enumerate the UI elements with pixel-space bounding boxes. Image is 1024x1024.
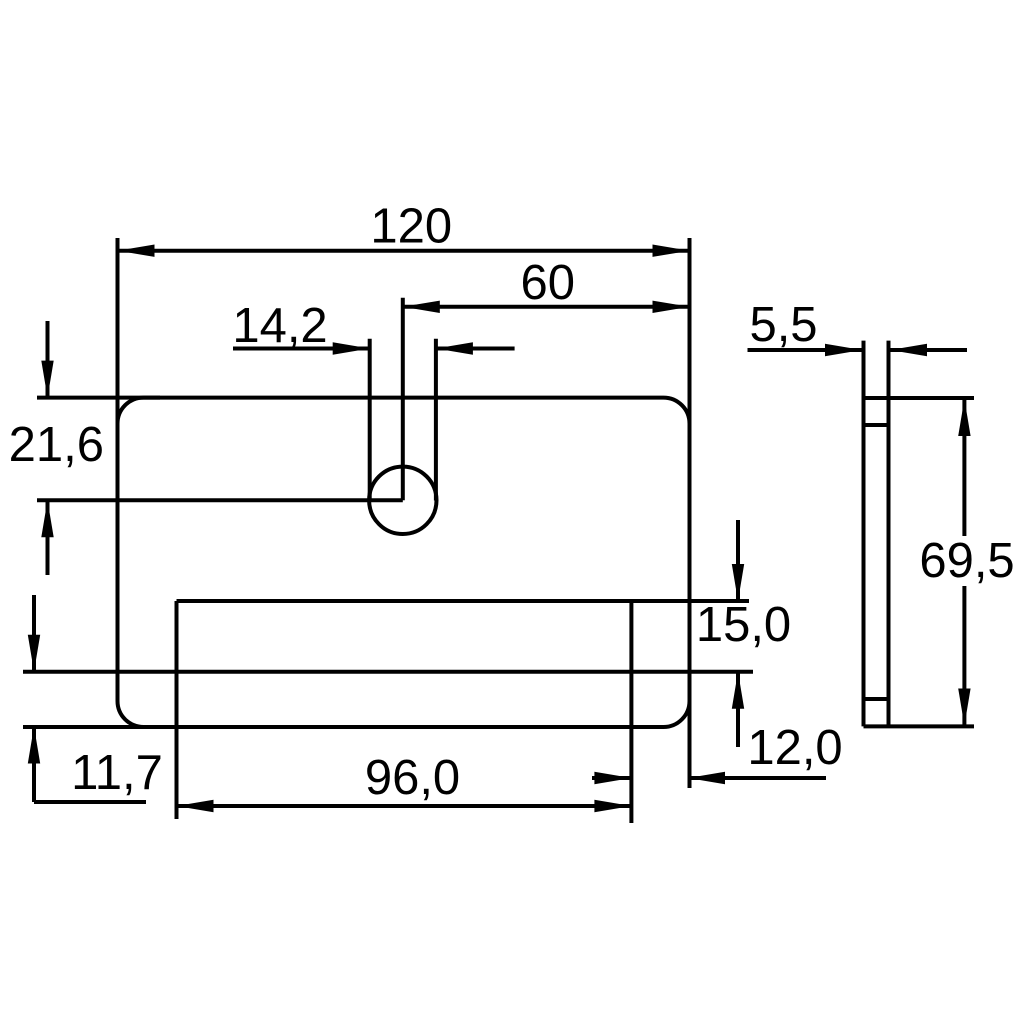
side view bottom edge / 69,5 extension — [864, 724, 975, 728]
dimension 14,2 leader right — [436, 347, 515, 351]
bottom slot bottom edge / 11,7 + 15,0 extension — [23, 670, 753, 674]
bottom slot left edge / 96,0 extension — [175, 601, 179, 819]
dimension 5,5 leader right — [890, 348, 967, 352]
svg-text:14,2: 14,2 — [232, 299, 327, 353]
dimension 69,5 line lower — [962, 586, 966, 726]
svg-text:11,7: 11,7 — [71, 746, 163, 800]
side view corner tangent line top — [864, 423, 889, 427]
svg-text:21,6: 21,6 — [9, 418, 104, 472]
dimension 120 line — [118, 249, 690, 253]
dimension 11,7 lower arrow — [32, 727, 36, 803]
wire: slot centre line / 60 extension — [401, 298, 405, 501]
svg-text:5,5: 5,5 — [749, 298, 817, 352]
svg-text:12,0: 12,0 — [747, 721, 842, 775]
wire: plate left edge / 120 extension line — [116, 238, 120, 430]
svg-text:15,0: 15,0 — [696, 598, 791, 652]
dimension 15,0 lower arrow — [736, 672, 740, 747]
dimension 12,0 right arrow — [688, 776, 826, 780]
bottom slot top edge / 15,0 extension — [177, 599, 750, 603]
dimension 11,7 upper arrow — [32, 595, 36, 672]
dimension 15,0 upper arrow — [736, 520, 740, 601]
bottom slot right edge / 96,0 + 12,0 extension — [629, 601, 633, 823]
wire: hole centre line / 21,6 extension — [37, 498, 403, 502]
dimension 14,2 leader left — [233, 347, 370, 351]
dimension 21,6 upper arrow — [46, 321, 50, 398]
plate outline (front view, rounded rectangle) — [118, 398, 690, 727]
wire: plate right edge / 120 + 12,0 extension line — [688, 238, 692, 788]
svg-text:96,0: 96,0 — [365, 751, 460, 805]
svg-text:60: 60 — [521, 256, 576, 310]
svg-text:69,5: 69,5 — [919, 534, 1014, 588]
side view top edge / 69,5 extension — [864, 396, 975, 400]
dimension 69,5 line upper — [962, 399, 966, 536]
dimension 21,6 lower arrow — [46, 500, 50, 575]
keyhole circle — [369, 467, 436, 534]
wire: plate top edge extension (21,6) — [37, 396, 160, 400]
side view left edge / 5,5 extension — [862, 341, 866, 727]
side view corner tangent line bottom — [864, 697, 889, 701]
wire: keyhole slot right edge / 14,2 extension — [434, 339, 438, 501]
dimension 11,7 leader — [34, 800, 146, 804]
side view right edge / 5,5 extension — [887, 341, 891, 727]
dimension 60 line — [403, 305, 690, 309]
wire: plate bottom edge extension (11,7) — [23, 725, 150, 729]
svg-text:120: 120 — [370, 200, 452, 254]
dimension 5,5 leader left — [748, 348, 863, 352]
dimension 12,0 left arrow — [592, 776, 631, 780]
dimension 96,0 line — [177, 804, 632, 808]
wire: keyhole slot left edge / 14,2 extension — [368, 339, 372, 501]
